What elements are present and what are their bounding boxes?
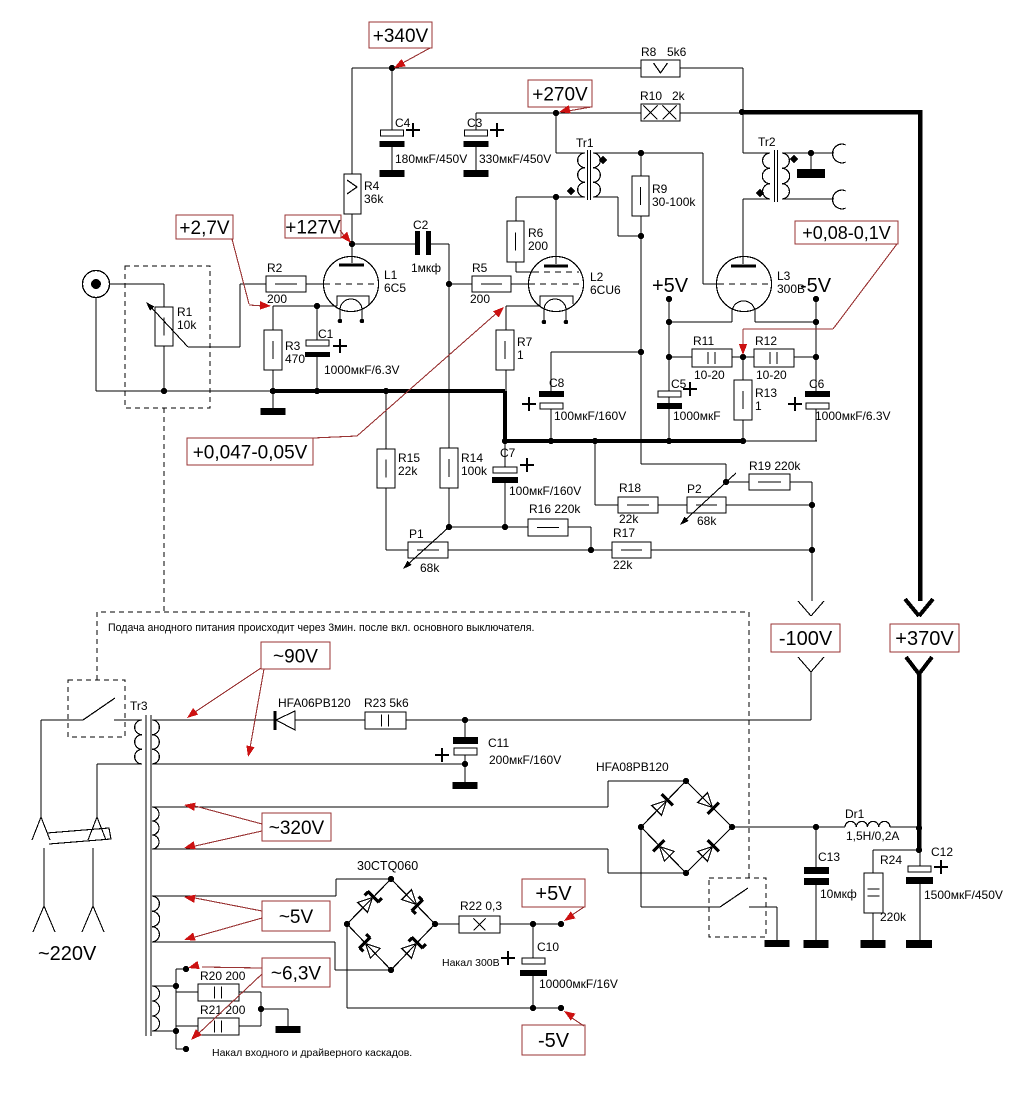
svg-text:22k: 22k — [619, 512, 639, 526]
label +0,047-0,05V — [187, 438, 313, 465]
resistor R13 — [742, 357, 744, 380]
svg-text:10000мкF/16V: 10000мкF/16V — [539, 977, 618, 991]
wire R2 to grid — [306, 283, 324, 285]
wire L2 cathode — [506, 305, 540, 307]
node +270V tap — [553, 110, 559, 116]
resistor R23 — [365, 712, 406, 729]
wire 320V bottom lead — [152, 848, 608, 850]
node R9 bottom — [638, 233, 644, 239]
label ~320V — [262, 813, 331, 841]
svg-text:200мкF/160V: 200мкF/160V — [489, 753, 561, 767]
node R3 ground — [270, 388, 276, 394]
label +0,08-0,1V — [795, 221, 898, 244]
speaker terminal bottom — [833, 190, 846, 209]
wire thick ground rail — [270, 389, 505, 393]
wire bridge minus drop — [640, 827, 642, 907]
dashed box mains switch — [68, 680, 125, 737]
svg-text:R14: R14 — [461, 451, 483, 465]
svg-text:1500мкF/450V: 1500мкF/450V — [924, 888, 1003, 902]
svg-text:470: 470 — [285, 352, 305, 366]
wire R18 to P2 — [658, 504, 687, 506]
svg-text:180мкF/450V: 180мкF/450V — [395, 152, 467, 166]
potentiometer P1 — [408, 542, 448, 558]
svg-text:5k6: 5k6 — [667, 45, 687, 59]
svg-text:+340V: +340V — [373, 26, 429, 47]
node C1 ground — [314, 388, 320, 394]
capacitor C1 — [316, 306, 318, 340]
svg-text:22k: 22k — [398, 464, 418, 478]
svg-text:Накал 300В: Накал 300В — [442, 957, 500, 969]
wire heater left — [669, 321, 732, 323]
wire input ground — [95, 297, 97, 391]
wire Tr1 primary bottom — [516, 196, 585, 198]
svg-text:36k: 36k — [364, 192, 384, 206]
wire thick B+ top — [742, 110, 920, 115]
wire P2 right — [726, 504, 812, 506]
label +5V out — [522, 879, 585, 907]
node R11 R12 — [740, 354, 746, 360]
svg-text:L3: L3 — [777, 269, 791, 283]
wire R18 riser — [594, 443, 596, 505]
svg-text:200: 200 — [470, 292, 490, 306]
node 6.3V bottom stub — [183, 1046, 189, 1052]
svg-text:1: 1 — [755, 399, 762, 413]
wire Dr1 to +370V — [890, 826, 920, 828]
svg-text:+127V: +127V — [285, 217, 341, 238]
wire Tr3 primary bottom — [97, 763, 142, 765]
wire R23 to -100V riser — [406, 719, 811, 721]
arrow -100V upper — [798, 601, 811, 616]
node C1 top — [314, 303, 320, 309]
resistor R20 — [176, 991, 198, 993]
svg-text:+5V: +5V — [535, 883, 572, 905]
svg-text:R13: R13 — [755, 386, 777, 400]
resistor R12 — [754, 349, 794, 367]
wire R14 bottom — [448, 488, 450, 527]
winding Tr3 320V — [152, 807, 159, 849]
svg-text:C2: C2 — [413, 218, 429, 232]
svg-text:+370V: +370V — [895, 628, 954, 650]
wire bridge to R22 — [435, 923, 459, 925]
svg-text:30CTQ060: 30CTQ060 — [357, 859, 418, 873]
svg-text:Dr1: Dr1 — [845, 807, 865, 821]
svg-text:Подача анодного питания происх: Подача анодного питания происходит через… — [108, 622, 534, 634]
svg-text:22k: 22k — [613, 558, 633, 572]
wire -5V column — [815, 299, 817, 391]
label +127V — [285, 215, 341, 238]
label +2,7V — [176, 215, 233, 239]
svg-text:HFA06PB120: HFA06PB120 — [278, 696, 351, 710]
winding Tr3 6.3V — [152, 986, 160, 1031]
svg-text:C4: C4 — [395, 116, 411, 130]
ground relay — [765, 940, 790, 947]
node Tr1 sec top — [638, 150, 644, 156]
wire +270V rail — [476, 112, 641, 114]
svg-text:R16 220k: R16 220k — [529, 502, 581, 516]
wire +5V column — [668, 299, 670, 441]
ground C12 — [906, 940, 932, 948]
svg-text:1000мкF: 1000мкF — [673, 409, 721, 423]
wire row 527 — [448, 526, 528, 528]
resistor R18 — [618, 497, 658, 513]
resistor R7 — [496, 330, 514, 370]
resistor R5 — [472, 276, 511, 292]
svg-text:R2: R2 — [267, 261, 283, 275]
wire Tr2 sec top — [782, 152, 834, 154]
arrow +370V upper — [905, 599, 919, 616]
svg-text:1000мкF/6.3V: 1000мкF/6.3V — [815, 409, 891, 423]
node C8 link — [638, 349, 644, 355]
wire P1 to R17 — [448, 549, 612, 551]
node L1 anode — [349, 241, 355, 247]
svg-text:100k: 100k — [461, 464, 488, 478]
node C7 bottom — [502, 524, 508, 530]
wire R3 to ground — [272, 370, 274, 391]
wire feedback drop — [640, 236, 642, 464]
svg-text:C6: C6 — [809, 377, 825, 391]
wire R16 to row550 — [568, 526, 591, 528]
resistor R3 — [264, 330, 282, 370]
wire R20 R21 join — [239, 991, 261, 993]
node C12 top — [916, 847, 922, 853]
dashed box volume pot — [125, 266, 210, 408]
node C5 bus — [666, 438, 672, 444]
svg-text:R8: R8 — [641, 45, 657, 59]
svg-text:C11: C11 — [488, 736, 509, 750]
node R1 ground — [161, 388, 167, 394]
svg-text:~90V: ~90V — [273, 646, 318, 667]
svg-text:10-20: 10-20 — [756, 368, 787, 382]
svg-text:R11: R11 — [693, 334, 714, 348]
svg-text:-5V: -5V — [800, 275, 832, 297]
svg-text:~220V: ~220V — [38, 943, 97, 965]
svg-text:R23 5k6: R23 5k6 — [364, 696, 409, 710]
wire bridge minus rail — [346, 924, 348, 1008]
arrow -100V lower — [798, 657, 811, 672]
node R18 riser bus — [592, 438, 598, 444]
resistor R9 — [640, 153, 642, 176]
svg-text:6C5: 6C5 — [384, 281, 406, 295]
tube L2 6CU6 — [529, 257, 584, 312]
node C11 bottom — [462, 761, 468, 767]
wire R7 to bus — [505, 370, 507, 391]
capacitor C7 — [504, 443, 506, 467]
svg-text:C1: C1 — [318, 327, 334, 341]
wire L1 cathode — [273, 305, 337, 307]
wire diode to R23 — [295, 719, 365, 721]
node B+ junction — [739, 109, 745, 115]
resistor R14 — [440, 448, 458, 488]
wire R11 R12 mid — [732, 356, 754, 358]
resistor R6 — [507, 221, 524, 262]
wire R11 left — [669, 356, 692, 358]
svg-text:R19 220k: R19 220k — [749, 459, 801, 473]
wire Tr2 sec bottom — [782, 198, 834, 200]
svg-text:330мкF/450V: 330мкF/450V — [479, 152, 551, 166]
resistor R10 — [641, 104, 680, 121]
node +5V stub — [558, 921, 564, 927]
node 6.3V top stub — [183, 966, 189, 972]
wire R1 bottom — [163, 346, 165, 391]
wire R22 to +5V — [500, 923, 561, 925]
node R19 P2 join — [809, 502, 815, 508]
svg-text:HFA08PB120: HFA08PB120 — [596, 760, 669, 774]
wire R19 right — [790, 481, 812, 483]
svg-text:6CU6: 6CU6 — [590, 283, 621, 297]
wire heater right — [755, 321, 816, 323]
wire 5V bottom lead — [152, 941, 335, 943]
capacitor C3 — [465, 130, 488, 136]
label ~5V — [262, 901, 330, 931]
label +340V — [369, 22, 432, 48]
svg-text:P1: P1 — [409, 527, 424, 541]
label ~90V — [261, 642, 330, 669]
svg-text:C7: C7 — [500, 446, 516, 460]
svg-text:R3: R3 — [285, 339, 301, 353]
wire R12 right — [794, 356, 816, 358]
ground Tr2 secondary — [810, 153, 812, 169]
svg-text:R18: R18 — [619, 481, 641, 495]
resistor R16 — [528, 519, 568, 536]
diode HFA06PB120 — [274, 711, 277, 730]
svg-text:+0,047-0,05V: +0,047-0,05V — [193, 442, 308, 463]
label -5V out — [522, 1025, 585, 1055]
tube L1 6C5 — [324, 257, 379, 312]
svg-text:Tr1: Tr1 — [576, 136, 594, 150]
svg-text:+2,7V: +2,7V — [179, 218, 230, 239]
capacitor C6 — [805, 391, 830, 397]
resistor R24 — [873, 849, 919, 851]
ground C4 — [380, 170, 405, 177]
capacitor C12 — [919, 850, 921, 866]
node -5V stub — [558, 1005, 564, 1011]
resistor R15 — [385, 391, 387, 449]
node L2 anode — [553, 194, 559, 200]
node R15 ground rail — [383, 388, 389, 394]
capacitor C8 — [550, 352, 552, 391]
resistor R17 — [612, 542, 651, 558]
wire -100V feed — [810, 672, 812, 720]
svg-text:R15: R15 — [398, 451, 420, 465]
wire C8 top link — [551, 351, 641, 353]
node +340V tap — [389, 65, 395, 71]
node C13 top — [813, 824, 819, 830]
svg-text:C13: C13 — [818, 850, 840, 864]
wire bus to C6 — [744, 440, 817, 442]
resistor R2 — [266, 276, 306, 292]
svg-text:10-20: 10-20 — [694, 368, 725, 382]
resistor R22 — [459, 916, 500, 933]
svg-text:R7: R7 — [517, 335, 533, 349]
node C10 bottom — [530, 1005, 536, 1011]
ground heater — [261, 1008, 288, 1010]
ground C13 — [804, 940, 829, 948]
wire R14 riser — [448, 284, 450, 448]
node R16 drop — [588, 547, 594, 553]
wire 5V top lead — [152, 895, 336, 897]
potentiometer P2 — [687, 497, 726, 513]
svg-text:~5V: ~5V — [279, 907, 314, 928]
svg-text:R17: R17 — [613, 526, 635, 540]
svg-text:C10: C10 — [537, 940, 559, 954]
capacitor C4 — [381, 130, 404, 136]
connector input RCA — [83, 271, 110, 298]
node 6.3V top lead — [173, 983, 179, 989]
svg-text:Tr3: Tr3 — [130, 699, 148, 713]
svg-text:~320V: ~320V — [269, 818, 325, 839]
resistor R21 — [176, 1025, 198, 1027]
wire C2 to R5 — [431, 243, 449, 245]
resistor R4 — [344, 174, 361, 214]
node R5 input — [446, 281, 452, 287]
wire P2 wiper to R19 — [726, 481, 749, 483]
svg-text:R20 200: R20 200 — [200, 969, 246, 983]
switch delay relay — [720, 888, 748, 907]
arrow +370V lower — [906, 657, 919, 674]
speaker terminal top — [833, 144, 846, 163]
wire to -100V — [811, 505, 813, 550]
ground C11 — [464, 764, 466, 782]
capacitor C5 — [658, 391, 681, 397]
node C11 top — [462, 717, 468, 723]
svg-text:C12: C12 — [931, 845, 953, 859]
svg-text:R24: R24 — [880, 853, 902, 867]
tube L3 300B — [717, 257, 772, 312]
dashed box delay relay — [709, 878, 766, 937]
winding Tr3 5V — [152, 896, 160, 942]
capacitor C11 — [464, 720, 466, 737]
svg-text:L2: L2 — [590, 270, 604, 284]
svg-text:100мкF/160V: 100мкF/160V — [509, 484, 581, 498]
svg-text:200: 200 — [528, 239, 548, 253]
node 6.3V bottom lead — [173, 1028, 179, 1034]
svg-text:100мкF/160V: 100мкF/160V — [554, 409, 626, 423]
svg-text:1: 1 — [517, 348, 524, 362]
wire 320V top lead — [152, 806, 608, 808]
svg-text:30-100k: 30-100k — [652, 195, 696, 209]
wire R4 to anode node — [351, 214, 353, 244]
svg-text:2k: 2k — [672, 89, 686, 103]
svg-text:L1: L1 — [384, 268, 398, 282]
wire 6.3V leads — [152, 985, 176, 987]
svg-text:C3: C3 — [467, 116, 483, 130]
svg-text:R9: R9 — [652, 182, 668, 196]
node C10 top — [530, 921, 536, 927]
wire 90V top lead — [152, 719, 275, 721]
node C8 bus — [548, 438, 554, 444]
capacitor C13 — [815, 827, 817, 867]
switch mains — [41, 719, 83, 721]
label ~6,3V — [262, 958, 330, 987]
svg-text:R1: R1 — [177, 305, 193, 319]
node heater ground — [258, 1006, 264, 1012]
svg-text:200: 200 — [267, 292, 287, 306]
svg-text:C5: C5 — [671, 377, 687, 391]
ground input stage — [272, 391, 274, 408]
ground R24 — [861, 940, 886, 948]
wire R1 wiper — [188, 346, 240, 348]
svg-text:Накал входного и драйверного к: Накал входного и драйверного каскадов. — [212, 1047, 412, 1059]
capacitor C2 — [415, 231, 420, 255]
svg-text:1мкф: 1мкф — [411, 261, 441, 275]
label +370V — [890, 624, 959, 652]
label -100V — [771, 624, 840, 652]
node P1 wiper row — [446, 524, 452, 530]
svg-text:C8: C8 — [549, 376, 565, 390]
wire 90V bottom lead — [152, 763, 465, 765]
dashed link to PSU box — [163, 408, 165, 612]
wire R17 right — [651, 549, 812, 551]
svg-text:68k: 68k — [420, 561, 440, 575]
svg-text:P2: P2 — [687, 482, 702, 496]
svg-text:10мкф: 10мкф — [820, 887, 857, 901]
resistor R8 — [641, 60, 680, 77]
wire anode to C2 — [352, 243, 415, 245]
wire input to R1 — [110, 283, 164, 285]
svg-text:R12: R12 — [755, 334, 777, 348]
svg-text:+5V: +5V — [652, 275, 689, 297]
svg-text:220k: 220k — [880, 910, 907, 924]
node R17 junction — [809, 547, 815, 553]
node bus corner — [502, 438, 508, 444]
svg-text:~6,3V: ~6,3V — [271, 963, 322, 984]
svg-text:+0,08-0,1V: +0,08-0,1V — [802, 223, 891, 243]
potentiometer R1 — [155, 307, 173, 346]
wire node to R5 — [449, 283, 472, 285]
svg-text:R10: R10 — [640, 89, 662, 103]
ground C3 — [464, 170, 489, 177]
svg-text:R6: R6 — [528, 226, 544, 240]
svg-text:+270V: +270V — [532, 84, 588, 105]
svg-text:R5: R5 — [472, 261, 488, 275]
svg-text:-100V: -100V — [779, 628, 833, 650]
svg-text:Tr2: Tr2 — [758, 135, 776, 149]
wire bridge plus out — [732, 826, 845, 828]
resistor R19 — [749, 474, 790, 490]
node R13 bus — [740, 438, 746, 444]
connector mains plug — [40, 720, 42, 817]
svg-text:-5V: -5V — [538, 1030, 570, 1052]
dashed PSU boundary — [97, 612, 749, 878]
svg-text:68k: 68k — [697, 514, 717, 528]
wire R6 to screen — [515, 197, 517, 221]
svg-text:R22 0,3: R22 0,3 — [460, 899, 502, 913]
node speaker ground tap — [808, 150, 814, 156]
label +270V — [528, 80, 592, 107]
wire grid line L3 — [641, 152, 703, 154]
svg-text:10k: 10k — [177, 318, 197, 332]
wire +340V rail — [352, 67, 641, 69]
wire R5 to L2 grid — [511, 283, 529, 285]
svg-text:1000мкF/6.3V: 1000мкF/6.3V — [324, 363, 400, 377]
node Dr1 out — [916, 825, 922, 831]
node P2 wiper — [723, 479, 729, 485]
wire thick +370V down — [917, 671, 922, 850]
svg-text:R4: R4 — [364, 179, 380, 193]
svg-text:1,5H/0,2A: 1,5H/0,2A — [846, 829, 899, 843]
resistor R11 — [692, 349, 732, 367]
winding Tr3 90V — [152, 720, 159, 764]
capacitor C10 — [532, 924, 534, 958]
